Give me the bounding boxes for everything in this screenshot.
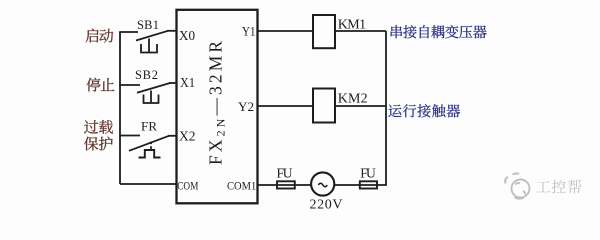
wire X1 row right — [169, 82, 177, 84]
svg-text:FU: FU — [277, 166, 293, 181]
svg-text:X1: X1 — [180, 75, 195, 90]
wire KM2 to right bus — [335, 105, 386, 107]
wire X0 row left — [119, 31, 138, 33]
label 启动 (start) — [86, 29, 114, 43]
label 停止 (stop) — [86, 78, 114, 92]
wire left input bus — [119, 32, 121, 184]
wire X0 row right — [167, 30, 177, 32]
watermark text 工控帮 — [536, 180, 581, 194]
svg-text:COM: COM — [177, 178, 198, 192]
svg-text:FR: FR — [141, 119, 157, 134]
wire COM1 row — [258, 184, 387, 186]
contactor coil KM1 — [313, 15, 335, 48]
wire COM bottom — [120, 183, 177, 185]
pushbutton SB1 (start, NO) — [136, 31, 168, 53]
contactor coil KM2 — [313, 89, 335, 123]
label 过载保护 (overload protection) — [84, 120, 113, 150]
svg-text:Y1: Y1 — [242, 25, 256, 39]
wire Y1 to KM1 — [258, 30, 314, 32]
wire X2 row right — [168, 135, 177, 137]
annotation 运行接触器 — [388, 104, 460, 117]
svg-text:KM2: KM2 — [338, 92, 368, 107]
svg-text:FU: FU — [360, 166, 376, 181]
wire Y2 to KM2 — [258, 105, 314, 107]
fuse FU (left) — [277, 181, 295, 188]
watermark logo icon — [505, 173, 529, 198]
thermal relay contact FR — [129, 136, 169, 158]
svg-text:SB2: SB2 — [135, 68, 158, 82]
svg-text:COM1: COM1 — [227, 179, 256, 193]
pushbutton SB2 (stop) — [137, 83, 170, 103]
wire KM1 to right bus — [335, 30, 386, 32]
annotation 串接自耦变压器 — [391, 25, 487, 38]
wire X1 row left — [119, 84, 140, 86]
svg-text:Y2: Y2 — [238, 100, 254, 114]
PLC box FX2N-32MR — [177, 10, 258, 204]
wire right vertical bus — [385, 31, 387, 185]
svg-text:FX2N—32MR: FX2N—32MR — [206, 38, 228, 165]
wire X2 row left — [119, 135, 140, 137]
svg-text:220V: 220V — [310, 197, 343, 212]
svg-text:X0: X0 — [179, 28, 195, 43]
AC source 220V — [311, 172, 334, 195]
fuse FU (right) — [360, 181, 377, 188]
svg-text:X2: X2 — [179, 129, 196, 144]
svg-text:SB1: SB1 — [137, 18, 159, 32]
